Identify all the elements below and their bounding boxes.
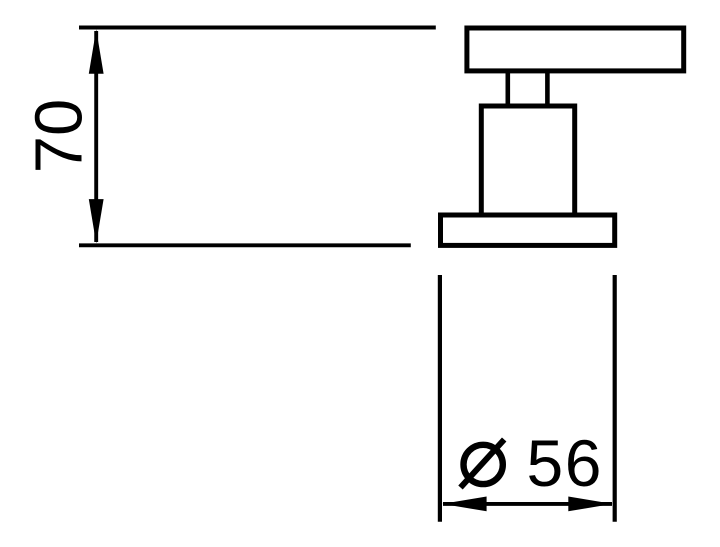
dimension 70: vertical dimension line bbox=[94, 31, 98, 242]
dimension 70: top extension line bbox=[79, 26, 436, 30]
dimension 70: bottom arrowhead bbox=[89, 199, 104, 243]
svg-text:70: 70 bbox=[22, 99, 97, 174]
cylindrical body rectangle bbox=[481, 106, 574, 215]
dimension 56: left extension line bbox=[438, 275, 442, 522]
dimension 56: left arrowhead bbox=[442, 497, 486, 512]
dimension 56: right extension line bbox=[613, 275, 617, 522]
dimension 56: right arrowhead bbox=[568, 497, 612, 512]
dimension 56: horizontal dimension line bbox=[443, 502, 612, 506]
neck right wire bbox=[545, 71, 550, 106]
dimension 70: top arrowhead bbox=[89, 29, 104, 73]
dimension 56: diameter symbol slash bbox=[461, 440, 505, 488]
handle lever bar (top rectangle) bbox=[467, 28, 684, 71]
svg-text:56: 56 bbox=[527, 426, 603, 500]
neck left wire bbox=[505, 71, 510, 106]
dimension 56: diameter symbol circle bbox=[464, 445, 503, 484]
base plate rectangle bbox=[441, 215, 615, 245]
dimension 70: bottom extension line bbox=[79, 243, 411, 247]
